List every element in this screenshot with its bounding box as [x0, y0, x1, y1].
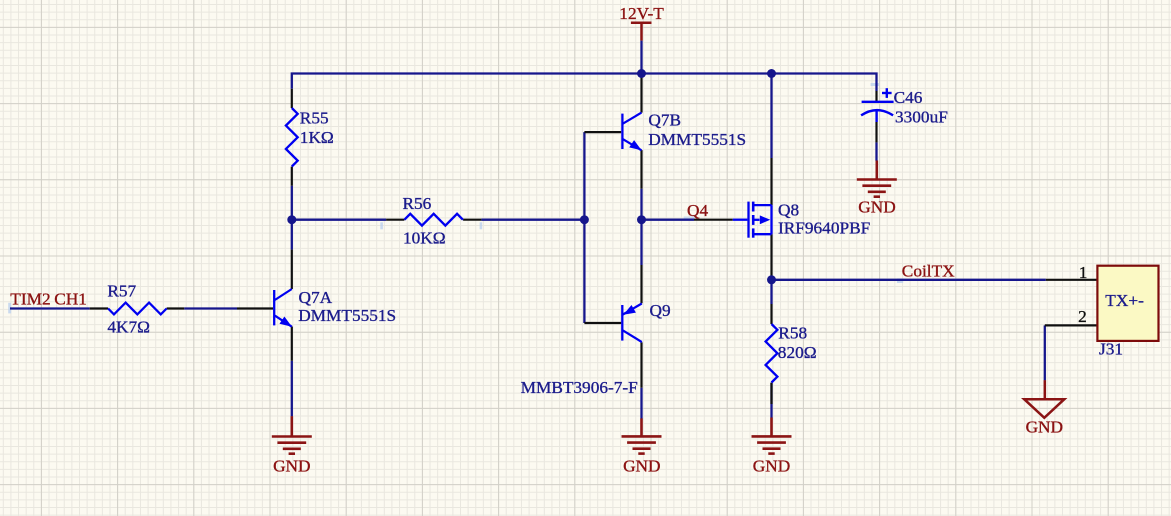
wire Q7A collector up: [291, 220, 293, 250]
pin Q7B emitter: [640, 150, 642, 189]
svg-text:Q8: Q8: [778, 201, 799, 220]
wire 12V rail: [292, 74, 877, 92]
power port 12V-T: [631, 23, 652, 41]
pin R58.2: [770, 383, 772, 404]
marker near C46 top: [871, 83, 880, 86]
svg-text:CoilTX: CoilTX: [902, 262, 955, 281]
wire R56 to base trunk: [481, 219, 584, 221]
svg-text:1: 1: [1079, 263, 1088, 282]
svg-text:TIM2: TIM2: [10, 289, 50, 308]
mosfet Q8 body: [733, 202, 772, 238]
ground GND under R58: [752, 418, 792, 454]
marker near Q4 wire: [684, 217, 696, 219]
pin Q9 base: [584, 322, 621, 324]
svg-text:820Ω: 820Ω: [778, 343, 817, 362]
svg-text:DMMT5551S: DMMT5551S: [648, 130, 746, 149]
ground GND triangle under J31: [1024, 380, 1064, 418]
pin Q7A base: [237, 307, 273, 309]
svg-text:MMBT3906-7-F: MMBT3906-7-F: [521, 378, 638, 397]
wire R58 to GND: [770, 383, 772, 418]
junction rail/12V: [637, 69, 646, 78]
junction gate-drive node: [637, 215, 646, 224]
wire node to R58: [770, 280, 772, 304]
wire base trunk Q7B-Q9: [583, 132, 585, 323]
resistor R56 body: [404, 214, 463, 226]
pin Q8 drain: [770, 234, 772, 276]
marker R56 right pin end: [480, 222, 483, 229]
pin R55.2: [291, 167, 293, 186]
capacitor C46 body: [861, 88, 894, 122]
pin C46.1: [875, 91, 877, 102]
ground GND under Q7A: [272, 416, 312, 454]
wire R57 to Q7A base: [184, 307, 237, 309]
svg-text:GND: GND: [858, 198, 895, 217]
junction base trunk: [580, 215, 589, 224]
pin Q9 emitter: [640, 265, 642, 303]
wire Q8 to node: [770, 276, 772, 280]
wire gate-drive node to Q8 gate: [642, 219, 695, 221]
wire Q7B emitter down: [640, 189, 642, 220]
mosfet Q8 arrow: [760, 215, 771, 224]
pin Q7A emitter: [291, 327, 293, 361]
resistor R58 body: [766, 324, 778, 383]
pin R56.1: [386, 219, 404, 221]
marker R56 left pin end: [380, 222, 383, 229]
pin C46.2: [875, 122, 877, 142]
svg-text:J31: J31: [1099, 339, 1123, 358]
svg-text:Q7B: Q7B: [648, 111, 681, 130]
wire Q7A emitter down: [291, 361, 293, 417]
svg-text:R55: R55: [300, 109, 329, 128]
pin Q8 gate: [694, 219, 733, 221]
svg-text:R57: R57: [107, 281, 136, 300]
wire CoilTX: [772, 279, 1046, 281]
wire R55 bottom to node: [291, 186, 293, 220]
junction R55/R56 node: [287, 215, 296, 224]
wire rail to Q8: [770, 74, 772, 159]
svg-text:3300uF: 3300uF: [895, 108, 948, 127]
svg-text:GND: GND: [753, 456, 790, 475]
pin Q7A collector: [291, 250, 293, 289]
svg-text:R58: R58: [778, 323, 807, 342]
pin Q8 source: [770, 158, 772, 205]
svg-text:TX+-: TX+-: [1105, 291, 1144, 310]
svg-text:C46: C46: [894, 88, 923, 107]
pin R58.1: [770, 304, 772, 324]
svg-text:CH1: CH1: [54, 289, 87, 308]
svg-text:GND: GND: [1026, 418, 1063, 437]
junction rail/Q8: [767, 69, 776, 78]
resistor R55 body: [286, 108, 298, 167]
svg-text:4K7Ω: 4K7Ω: [107, 317, 150, 336]
wire C46 to GND: [875, 142, 877, 160]
marker near CoilTX label: [897, 278, 903, 283]
svg-text:IRF9640PBF: IRF9640PBF: [778, 219, 870, 238]
transistor Q7B emitter arrow: [629, 140, 641, 150]
svg-text:Q7A: Q7A: [299, 288, 333, 307]
svg-text:Q4: Q4: [687, 201, 708, 220]
transistor Q7B body: [622, 113, 641, 151]
svg-text:R56: R56: [403, 194, 432, 213]
pin R57.2: [167, 307, 185, 309]
pin J31.1: [1046, 279, 1098, 281]
transistor Q7A body: [274, 289, 292, 327]
wire Q9 to GND: [640, 388, 642, 419]
pin J31.2: [1045, 324, 1098, 326]
pin R56.2: [463, 219, 481, 221]
svg-text:2: 2: [1078, 307, 1087, 326]
svg-text:DMMT5551S: DMMT5551S: [298, 306, 396, 325]
svg-text:Q9: Q9: [650, 301, 671, 320]
transistor Q9 emitter arrow: [623, 305, 636, 315]
pin R57.1: [90, 307, 108, 309]
svg-text:10KΩ: 10KΩ: [403, 228, 446, 247]
wire 12V stem to rail: [640, 41, 642, 74]
svg-text:1KΩ: 1KΩ: [300, 128, 334, 147]
pin Q9 collector: [640, 342, 642, 387]
pin Q7B base: [584, 131, 621, 133]
wire J31 pin2 down: [1044, 325, 1046, 380]
wire node to Q9: [640, 220, 642, 265]
pin Q7B collector: [640, 74, 642, 113]
wire node to R56: [292, 219, 386, 221]
ground GND under C46: [857, 161, 897, 197]
transistor Q7A emitter arrow: [280, 317, 292, 327]
pin R55.1: [291, 89, 293, 108]
svg-text:12V-T: 12V-T: [619, 4, 664, 23]
ground GND under Q9: [622, 418, 662, 453]
open-end marker TIM2 wire start: [8, 303, 11, 314]
wire TIM2_CH1 to R57: [10, 307, 90, 309]
svg-text:GND: GND: [623, 456, 660, 475]
transistor Q9 body: [622, 304, 642, 343]
connector J31 body: [1097, 266, 1158, 341]
resistor R57 body: [108, 303, 167, 315]
junction Q8/R58/CoilTX: [767, 275, 776, 284]
svg-text:GND: GND: [273, 456, 310, 475]
